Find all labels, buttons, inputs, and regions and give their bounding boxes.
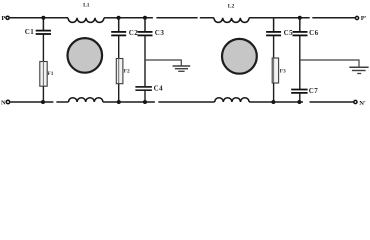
capacitor C1 <box>25 18 51 62</box>
wire top: node E to P' <box>300 17 356 19</box>
capacitor C4 <box>135 85 163 102</box>
wire top: node D to node E <box>274 17 300 19</box>
inductor L2 <box>214 18 249 23</box>
wire bottom: node I to node J <box>273 101 299 103</box>
svg-text:C2: C2 <box>129 29 139 37</box>
wire top: L2 to node D <box>249 17 274 19</box>
wire bottom: node J to N' <box>299 101 353 103</box>
node G junction dot (F2 tap) <box>117 100 121 104</box>
ground 2 <box>349 67 368 73</box>
svg-text:C3: C3 <box>155 29 165 37</box>
wire branch to ground 2 <box>300 60 359 67</box>
node P' terminal circle <box>355 16 358 19</box>
node H junction dot (C4 tap) <box>143 100 147 104</box>
fuse F1 <box>40 62 54 103</box>
wire top: node B to node C <box>119 17 145 19</box>
capacitor C5 <box>266 18 293 58</box>
svg-text:P′: P′ <box>361 15 367 22</box>
wire top: L1 to node B <box>104 17 119 19</box>
svg-text:N: N <box>1 99 6 106</box>
capacitor C6 <box>293 18 319 89</box>
node A junction dot (C1 tap) <box>41 16 45 20</box>
wire bottom: node G to node H <box>119 101 145 103</box>
fuse F3 <box>272 58 286 102</box>
wire top: P to node A <box>10 17 44 19</box>
node I junction dot (F3 tap) <box>271 100 275 104</box>
svg-text:F1: F1 <box>47 71 53 77</box>
svg-text:L1: L1 <box>83 2 90 8</box>
node B junction dot (C2 tap) <box>117 16 121 20</box>
svg-text:L2: L2 <box>228 4 235 10</box>
wire top: node C to L2 <box>145 17 214 19</box>
wire bottom: coil 1 to node G <box>103 101 119 103</box>
node N terminal circle <box>6 100 9 103</box>
ground 1 <box>173 66 191 71</box>
svg-text:C5: C5 <box>284 29 294 37</box>
wire branch to ground 1 <box>145 60 181 66</box>
node N' terminal circle <box>354 100 357 103</box>
svg-text:F2: F2 <box>124 68 130 74</box>
node P terminal circle <box>6 16 9 19</box>
capacitor C7 <box>291 87 318 102</box>
capacitor C2 <box>111 18 138 59</box>
node C junction dot (C3 tap) <box>143 16 147 20</box>
svg-text:F3: F3 <box>280 68 286 74</box>
fuse F2 <box>116 59 130 103</box>
wire bottom: node H to bottom coil 2 <box>145 101 215 103</box>
svg-text:C1: C1 <box>25 28 35 36</box>
svg-text:P: P <box>1 15 5 22</box>
node E junction dot (C6 tap) <box>298 16 302 20</box>
svg-text:C6: C6 <box>309 29 319 37</box>
capacitor C3 <box>138 18 165 87</box>
tube envelope circle 2 <box>222 39 257 74</box>
wire top: node A to L1 <box>43 17 68 19</box>
wire bottom: N to node F <box>10 101 43 103</box>
svg-text:C7: C7 <box>309 87 319 95</box>
svg-text:C4: C4 <box>154 85 164 93</box>
svg-text:N′: N′ <box>359 100 366 107</box>
node J junction dot (C7 tap) <box>297 100 301 104</box>
inductor bottom-left coil <box>69 98 103 102</box>
inductor L1 <box>68 18 104 23</box>
inductor bottom-right coil <box>215 98 249 102</box>
wire bottom: node F to bottom coil 1 <box>43 101 69 103</box>
tube envelope circle 1 <box>68 38 103 73</box>
wire bottom: coil 2 to node I <box>249 101 273 103</box>
node F junction dot (F1 tap) <box>41 100 45 104</box>
